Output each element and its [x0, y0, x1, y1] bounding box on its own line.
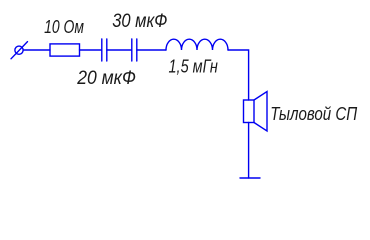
wire	[137, 49, 166, 51]
capacitor C2	[132, 39, 137, 61]
inductor L1	[166, 39, 228, 50]
svg-text:Тыловой СП: Тыловой СП	[270, 104, 358, 124]
wire	[23, 49, 50, 51]
resistor R1	[50, 44, 80, 56]
capacitor C1	[102, 39, 107, 61]
svg-text:30 мкФ: 30 мкФ	[112, 11, 167, 32]
wire	[228, 50, 249, 100]
svg-text:20 мкФ: 20 мкФ	[76, 68, 136, 89]
wire	[107, 49, 132, 51]
wire	[248, 123, 250, 179]
wire	[80, 49, 102, 51]
speaker BA1	[244, 92, 268, 132]
input terminal X1	[11, 42, 28, 59]
svg-text:10 Ом: 10 Ом	[44, 17, 84, 37]
svg-text:1,5 мГн: 1,5 мГн	[169, 56, 218, 76]
ground	[240, 177, 260, 179]
